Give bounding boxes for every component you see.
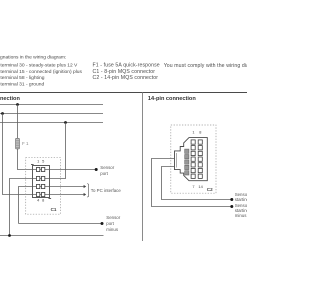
C2 pins right column bbox=[198, 140, 202, 179]
fuse F1 bbox=[16, 138, 20, 149]
svg-text:terminal 31 - ground: terminal 31 - ground bbox=[0, 82, 44, 88]
svg-text:terminal 58 - lighting: terminal 58 - lighting bbox=[0, 75, 44, 81]
wire pin8 to PC bbox=[50, 194, 85, 196]
svg-text:To PC interface: To PC interface bbox=[91, 188, 122, 193]
label sensor starting bbox=[235, 192, 250, 202]
wire pin2 left drop bbox=[10, 179, 33, 236]
wire pin5 to sensor port bbox=[50, 169, 97, 171]
svg-text:8: 8 bbox=[199, 129, 201, 134]
label sensor port minus bbox=[106, 215, 120, 232]
svg-text:14: 14 bbox=[198, 184, 203, 189]
svg-text:C2: C2 bbox=[207, 187, 213, 192]
svg-text:minus: minus bbox=[106, 227, 119, 232]
wire C1 row2 internal bbox=[33, 178, 50, 180]
svg-text:starting: starting bbox=[235, 197, 247, 202]
wire C1 row1 internal bbox=[33, 169, 50, 171]
wire C1 row3 internal bbox=[33, 186, 50, 188]
connector C1 dashed box bbox=[26, 158, 61, 215]
separator rule bbox=[0, 92, 247, 94]
svg-text:14-pin connection: 14-pin connection bbox=[148, 96, 196, 102]
node sensor starting minus bbox=[230, 205, 233, 208]
svg-text:C1: C1 bbox=[51, 207, 57, 212]
svg-text:nection: nection bbox=[0, 96, 20, 102]
node junction bus15 bbox=[1, 112, 4, 115]
wire bus terminal 15 bbox=[0, 113, 103, 115]
C1 pin 5 bbox=[42, 167, 45, 171]
svg-text:1: 1 bbox=[37, 159, 39, 164]
wire pin3 left drop bbox=[19, 187, 33, 224]
wire bottom bus bbox=[0, 235, 104, 237]
wire bus terminal 31 bbox=[0, 122, 103, 124]
C1 pin 3 bbox=[37, 184, 40, 188]
svg-text:F1 - fuse 5A quick-response: F1 - fuse 5A quick-response bbox=[93, 62, 160, 68]
label sensor port bbox=[100, 165, 114, 176]
connector C2 body bbox=[175, 138, 208, 181]
wire fuse to pin1 bbox=[18, 149, 33, 170]
C1 pin 8 bbox=[42, 192, 45, 196]
wire pin7 to PC bbox=[50, 186, 85, 188]
C1 pin 2 bbox=[37, 176, 40, 180]
svg-text:4: 4 bbox=[37, 198, 40, 203]
connector C2 dashed box bbox=[171, 125, 216, 193]
node sensor port bbox=[95, 168, 98, 171]
svg-text:Sensor: Sensor bbox=[100, 165, 114, 170]
svg-text:terminal 30 - steady-state plu: terminal 30 - steady-state plus 12 V bbox=[0, 62, 78, 68]
C1 pin 7 bbox=[42, 184, 45, 188]
svg-text:C2 - 14-pin MQS connector: C2 - 14-pin MQS connector bbox=[93, 75, 159, 81]
wire C2 lower to sensor starting bbox=[162, 167, 232, 200]
svg-text:gnations in the wiring diagram: gnations in the wiring diagram: bbox=[0, 55, 66, 61]
svg-text:7: 7 bbox=[192, 184, 194, 189]
svg-text:port: port bbox=[106, 221, 114, 226]
wire bus30 to fuse bbox=[17, 105, 19, 139]
node junction bus31 bbox=[64, 121, 67, 124]
bracket PC interface bbox=[87, 183, 88, 197]
connector C1 body bbox=[31, 165, 51, 199]
label sensor starting minus bbox=[235, 203, 250, 218]
svg-text:Sensor: Sensor bbox=[106, 215, 120, 220]
svg-text:5: 5 bbox=[42, 159, 44, 164]
svg-text:minus: minus bbox=[235, 213, 247, 218]
wire sensor port minus bbox=[19, 223, 103, 225]
wire C2 upper to sensor starting minus bbox=[152, 159, 232, 207]
C2 key slots bbox=[185, 149, 189, 175]
svg-text:terminal 15 - connected (ignit: terminal 15 - connected (ignition) plus bbox=[0, 69, 82, 75]
wire C1 row4 internal bbox=[33, 194, 50, 196]
C2 latch inner line bbox=[176, 153, 178, 168]
svg-text:F 1: F 1 bbox=[22, 141, 29, 146]
node junction bottom bus bbox=[8, 234, 11, 237]
node sensor port minus bbox=[101, 222, 104, 225]
C1 pin 4 bbox=[37, 192, 40, 196]
svg-text:port: port bbox=[100, 171, 108, 176]
svg-text:8: 8 bbox=[42, 198, 44, 203]
wire bus terminal 30 bbox=[0, 104, 103, 106]
wire bus15 to pin4 bbox=[3, 114, 33, 195]
panel divider bbox=[142, 93, 144, 242]
svg-text:You must comply with the wirin: You must comply with the wiring diagram … bbox=[164, 63, 247, 69]
C2 pins left column bbox=[191, 140, 195, 179]
C1 pin 6 bbox=[42, 176, 45, 180]
node junction bus30/fuse bbox=[16, 103, 19, 106]
node sensor starting bbox=[230, 198, 233, 201]
svg-text:1: 1 bbox=[192, 129, 194, 134]
svg-text:C1 - 8-pin MQS connector: C1 - 8-pin MQS connector bbox=[93, 69, 156, 75]
wire pin6 to bus31 bbox=[50, 123, 66, 179]
C1 pin 1 bbox=[37, 167, 40, 171]
